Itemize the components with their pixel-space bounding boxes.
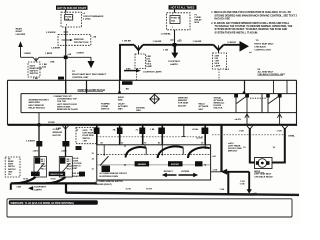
svg-text:FUSE 16: FUSE 16 bbox=[171, 18, 181, 20]
svg-text:75 83: 75 83 bbox=[51, 179, 57, 181]
svg-text:LAMP: LAMP bbox=[215, 65, 221, 68]
svg-text:5 BK: 5 BK bbox=[126, 69, 131, 71]
svg-text:TO RT: TO RT bbox=[146, 188, 153, 190]
svg-text:1 BR/R: 1 BR/R bbox=[45, 53, 53, 55]
svg-text:WINDOWS: 71-92 (E4A 102 WIRM,: WINDOWS: 71-92 (E4A 102 WIRM, 92 PWR W/S… bbox=[11, 202, 75, 205]
svg-text:1 BL: 1 BL bbox=[150, 129, 155, 131]
svg-text:GN/BL: GN/BL bbox=[288, 136, 295, 138]
svg-text:SENKEN: SENKEN bbox=[138, 164, 147, 166]
svg-text:1: 1 bbox=[172, 14, 173, 16]
svg-text:VALET: VALET bbox=[118, 103, 125, 106]
svg-text:2 BR: 2 BR bbox=[56, 128, 61, 130]
svg-text:5 BR: 5 BR bbox=[17, 187, 22, 189]
svg-text:RIGHT SEAT BELT DISCONNECT: RIGHT SEAT BELT DISCONNECT bbox=[72, 73, 107, 76]
svg-text:RELAY: RELAY bbox=[195, 19, 203, 22]
svg-text:WINDOW: WINDOW bbox=[53, 132, 64, 134]
svg-text:1.5 BR/R: 1.5 BR/R bbox=[51, 48, 60, 50]
svg-text:HOT IN RUN OR START: HOT IN RUN OR START bbox=[57, 6, 86, 10]
svg-text:14 GN: 14 GN bbox=[73, 157, 79, 160]
svg-text:7C: 7C bbox=[136, 129, 139, 131]
svg-text:x4 GN: x4 GN bbox=[196, 136, 203, 139]
svg-text:REAR SPLY: REAR SPLY bbox=[73, 175, 86, 178]
svg-text:MAX: MAX bbox=[136, 109, 141, 112]
svg-text:REAR: REAR bbox=[8, 160, 14, 163]
svg-text:41-BL: 41-BL bbox=[192, 128, 199, 131]
svg-text:LAMP: LAMP bbox=[146, 65, 152, 68]
svg-text:x4 GN: x4 GN bbox=[235, 118, 242, 121]
svg-text:TO: TO bbox=[256, 40, 259, 42]
svg-text:x35: x35 bbox=[177, 39, 182, 42]
svg-text:CONTROL UNIT: CONTROL UNIT bbox=[254, 50, 271, 52]
svg-text:8: 8 bbox=[65, 13, 66, 15]
svg-text:ACTUATE: ACTUATE bbox=[118, 105, 128, 108]
svg-text:LEFT SEAT BELT: LEFT SEAT BELT bbox=[254, 173, 272, 176]
svg-text:2.5 BR/W: 2.5 BR/W bbox=[46, 32, 56, 34]
svg-text:PASSED (RIGHT): PASSED (RIGHT) bbox=[96, 183, 113, 186]
svg-text:30A: 30A bbox=[171, 20, 175, 23]
svg-text:K30 S/D: K30 S/D bbox=[73, 173, 81, 175]
svg-text:x1 S: x1 S bbox=[253, 193, 258, 195]
svg-text:1 GN: 1 GN bbox=[239, 131, 245, 133]
svg-text:ACTUATE: ACTUATE bbox=[214, 99, 224, 102]
svg-text:SYSTEM THEN RE-INSTALL IT AGAI: SYSTEM THEN RE-INSTALL IT AGAIN. bbox=[215, 31, 259, 34]
svg-text:1 GN BR: 1 GN BR bbox=[153, 41, 162, 43]
svg-text:7B: 7B bbox=[113, 129, 116, 131]
svg-text:RIGHT: RIGHT bbox=[16, 31, 23, 33]
svg-text:RETRACT: RETRACT bbox=[164, 170, 174, 173]
svg-text:COURTESY: COURTESY bbox=[168, 61, 181, 63]
svg-text:1 GN: 1 GN bbox=[163, 49, 169, 51]
svg-text:REMOVED IN PLACE: REMOVED IN PLACE bbox=[57, 108, 78, 111]
svg-text:A POWER WINDOW SWITCH: A POWER WINDOW SWITCH bbox=[96, 180, 124, 183]
svg-text:x32/3: x32/3 bbox=[33, 151, 39, 153]
svg-text:1 GN BR: 1 GN BR bbox=[193, 41, 202, 43]
svg-text:BK: BK bbox=[126, 88, 130, 90]
svg-text:7A: 7A bbox=[90, 128, 93, 131]
svg-text:ANTENNA ROTARLY: ANTENNA ROTARLY bbox=[29, 99, 50, 102]
svg-text:1.5 BK/BL: 1.5 BK/BL bbox=[161, 34, 172, 36]
svg-text:CENTRALIZED DASH: CENTRALIZED DASH bbox=[78, 88, 105, 92]
svg-text:SWITCH: SWITCH bbox=[101, 109, 110, 111]
svg-text:LAMPS: LAMPS bbox=[170, 63, 178, 66]
svg-text:10A: 10A bbox=[65, 18, 69, 21]
svg-text:REL 5: REL 5 bbox=[41, 168, 46, 170]
svg-text:EXTEND: EXTEND bbox=[181, 171, 189, 173]
svg-text:x4/10: x4/10 bbox=[228, 142, 234, 145]
svg-text:X2 BR: X2 BR bbox=[48, 122, 55, 124]
svg-text:1 GN: 1 GN bbox=[277, 131, 283, 133]
svg-text:REL 5: REL 5 bbox=[67, 168, 72, 170]
svg-text:ADJUST: ADJUST bbox=[178, 104, 187, 107]
svg-text:1 GN: 1 GN bbox=[220, 189, 225, 191]
svg-text:SAFETY: SAFETY bbox=[30, 70, 39, 73]
svg-text:1 BK: 1 BK bbox=[33, 78, 38, 80]
svg-text:SWITCH MAX: SWITCH MAX bbox=[57, 105, 71, 108]
svg-text:BRKOUT: BRKOUT bbox=[228, 151, 238, 153]
svg-text:RIGHT SEAT BELT: RIGHT SEAT BELT bbox=[254, 42, 274, 45]
svg-text:REAR: REAR bbox=[16, 27, 23, 30]
svg-text:IN EACH USE: IN EACH USE bbox=[215, 17, 231, 20]
svg-text:1 GN: 1 GN bbox=[213, 169, 218, 171]
svg-text:B EXPRESS DOWN: B EXPRESS DOWN bbox=[100, 176, 119, 178]
svg-text:LEFT REAR: LEFT REAR bbox=[83, 132, 94, 135]
svg-text:1: 1 bbox=[172, 27, 173, 29]
svg-text:RELAY MODULE: RELAY MODULE bbox=[29, 106, 46, 109]
svg-text:AND: AND bbox=[118, 99, 123, 102]
svg-text:BACK: BACK bbox=[118, 96, 125, 99]
svg-text:WHEN ALL: WHEN ALL bbox=[214, 102, 226, 105]
svg-text:AMPLIFIER: AMPLIFIER bbox=[29, 101, 41, 104]
svg-text:WINDOW: WINDOW bbox=[74, 39, 85, 41]
svg-text:PROTECTION: PROTECTION bbox=[74, 42, 89, 44]
svg-text:UNLOCK: UNLOCK bbox=[214, 108, 223, 110]
svg-text:1 BR/R: 1 BR/R bbox=[24, 53, 32, 55]
svg-text:TL 89: TL 89 bbox=[126, 188, 132, 190]
svg-text:MOTOR: MOTOR bbox=[53, 135, 62, 137]
svg-text:LEFT REAR: LEFT REAR bbox=[228, 144, 241, 147]
svg-text:A POWER WINDOW CIRCUIT: A POWER WINDOW CIRCUIT bbox=[100, 172, 128, 175]
svg-text:SWITCH: SWITCH bbox=[30, 73, 39, 75]
svg-text:BOX: BOX bbox=[195, 22, 200, 24]
svg-text:5 BK/R: 5 BK/R bbox=[77, 52, 85, 54]
svg-text:RIGHT REAR: RIGHT REAR bbox=[51, 173, 64, 176]
svg-text:MAX: MAX bbox=[118, 108, 123, 111]
svg-text:WHY: WHY bbox=[199, 109, 204, 111]
svg-text:COURTESY LAMPS: COURTESY LAMPS bbox=[143, 70, 162, 73]
svg-text:FOR SEAT: FOR SEAT bbox=[178, 102, 189, 105]
svg-text:1 GN BR: 1 GN BR bbox=[122, 41, 131, 43]
svg-text:CHK BACK: CHK BACK bbox=[254, 45, 266, 48]
svg-text:LIGHTER: LIGHTER bbox=[16, 34, 26, 36]
svg-text:2 (10A): 2 (10A) bbox=[83, 17, 91, 20]
svg-text:CONTROL UNIT: CONTROL UNIT bbox=[72, 77, 89, 79]
svg-text:1.5 BR/S: 1.5 BR/S bbox=[26, 141, 35, 143]
svg-text:x32/3: x32/3 bbox=[61, 151, 67, 153]
svg-text:CIRCUIT BREAKER: CIRCUIT BREAKER bbox=[83, 15, 104, 18]
svg-text:UNIT: UNIT bbox=[73, 168, 78, 170]
svg-text:1 BK: 1 BK bbox=[50, 62, 55, 64]
svg-text:RAILS: RAILS bbox=[199, 103, 206, 106]
svg-text:8: 8 bbox=[66, 25, 67, 27]
svg-text:TO: TO bbox=[72, 71, 75, 73]
svg-text:EXPORT: EXPORT bbox=[171, 164, 180, 166]
svg-text:ACTUATE: ACTUATE bbox=[199, 105, 209, 108]
svg-text:COURTESY: COURTESY bbox=[34, 186, 47, 188]
svg-text:1 GN: 1 GN bbox=[240, 183, 245, 185]
svg-text:HOT AT ALL TIMES: HOT AT ALL TIMES bbox=[171, 6, 195, 10]
svg-text:x4 S: x4 S bbox=[225, 68, 230, 71]
svg-text:x 4M: x 4M bbox=[83, 139, 88, 142]
svg-text:CHK BACK RELAY: CHK BACK RELAY bbox=[254, 175, 273, 178]
svg-text:I FRONT: I FRONT bbox=[227, 42, 236, 44]
svg-text:SIGNAL: SIGNAL bbox=[214, 96, 223, 99]
svg-text:LAMPS: LAMPS bbox=[34, 188, 42, 191]
svg-text:REAR WDW: REAR WDW bbox=[30, 67, 43, 70]
